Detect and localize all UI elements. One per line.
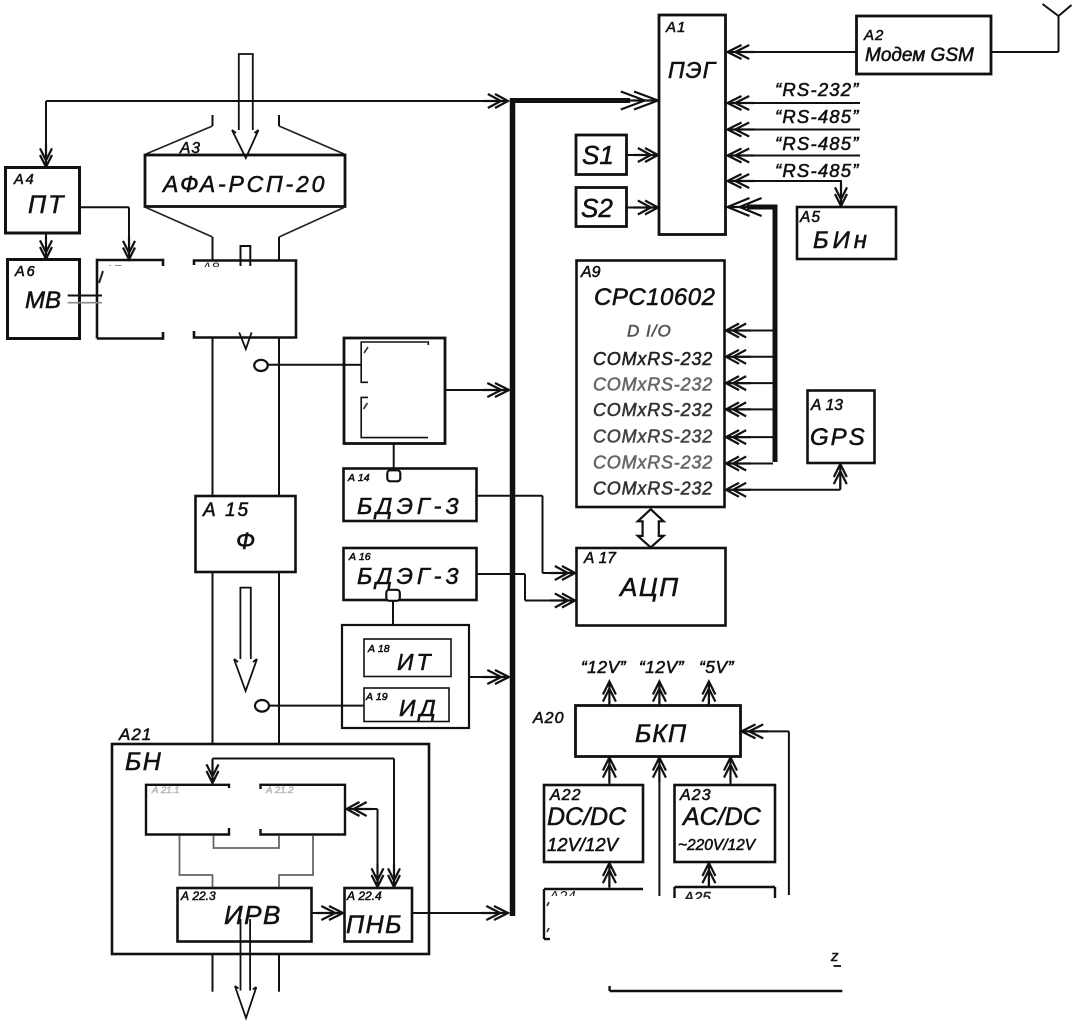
svg-text:БДЭГ-3: БДЭГ-3 <box>357 493 463 519</box>
svg-text:Ф: Ф <box>236 528 255 555</box>
svg-text:А4: А4 <box>13 172 36 188</box>
svg-text:“RS-485”: “RS-485” <box>775 133 860 154</box>
svg-text:БН: БН <box>125 748 162 776</box>
svg-text:ПНБ: ПНБ <box>346 911 403 939</box>
svg-text:БДЭГ-3: БДЭГ-3 <box>357 563 463 589</box>
svg-text:“12V”: “12V” <box>639 657 685 677</box>
svg-text:А9: А9 <box>580 264 601 281</box>
svg-text:АФА-РСП-20: АФА-РСП-20 <box>161 171 327 197</box>
svg-text:“RS-485”: “RS-485” <box>775 106 860 127</box>
svg-text:А23: А23 <box>679 787 711 804</box>
svg-text:ПТ: ПТ <box>28 191 65 219</box>
svg-text:А22: А22 <box>549 787 581 804</box>
svg-text:МВ: МВ <box>25 287 61 314</box>
svg-text:COMxRS-232: COMxRS-232 <box>593 400 713 420</box>
svg-text:12V/12V: 12V/12V <box>547 834 620 855</box>
svg-text:А5: А5 <box>799 209 821 226</box>
svg-text:А 18: А 18 <box>367 643 390 655</box>
svg-text:А6: А6 <box>14 264 37 280</box>
svg-text:А 21.1: А 21.1 <box>151 785 179 796</box>
svg-text:COMxRS-232: COMxRS-232 <box>593 479 713 499</box>
svg-text:z: z <box>830 948 839 965</box>
svg-text:“12V”: “12V” <box>581 657 627 677</box>
svg-text:А 22.3: А 22.3 <box>180 889 216 903</box>
svg-text:А1: А1 <box>665 19 686 36</box>
svg-text:А 15: А 15 <box>202 500 250 521</box>
svg-text:А3: А3 <box>179 140 201 157</box>
svg-text:ИТ: ИТ <box>397 649 434 675</box>
svg-text:СРС10602: СРС10602 <box>594 284 715 311</box>
svg-text:А 13: А 13 <box>810 397 843 414</box>
svg-text:ИРВ: ИРВ <box>224 900 282 930</box>
svg-text:БКП: БКП <box>635 720 687 748</box>
svg-text:“5V”: “5V” <box>699 657 735 677</box>
svg-text:S2: S2 <box>581 193 613 223</box>
svg-text:COMxRS-232: COMxRS-232 <box>593 453 713 473</box>
svg-text:А 14: А 14 <box>347 472 370 484</box>
svg-text:Модем GSM: Модем GSM <box>865 45 974 66</box>
svg-text:COMxRS-232: COMxRS-232 <box>593 427 713 447</box>
svg-text:А2: А2 <box>863 27 884 44</box>
svg-text:DC/DC: DC/DC <box>547 803 627 831</box>
svg-text:~220V/12V: ~220V/12V <box>678 837 757 854</box>
svg-text:“RS-232”: “RS-232” <box>775 79 860 100</box>
svg-text:А 21.2: А 21.2 <box>265 785 294 796</box>
svg-text:А 17: А 17 <box>583 550 617 567</box>
svg-text:AC/DC: AC/DC <box>681 803 762 831</box>
svg-text:S1: S1 <box>582 140 614 170</box>
svg-text:ПЭГ: ПЭГ <box>668 57 717 83</box>
svg-text:GPS: GPS <box>810 424 867 451</box>
svg-text:А20: А20 <box>532 710 564 727</box>
svg-text:COMxRS-232: COMxRS-232 <box>593 349 713 369</box>
svg-text:ИД: ИД <box>399 695 440 721</box>
svg-text:А 16: А 16 <box>348 551 371 563</box>
svg-text:“RS-485”: “RS-485” <box>775 160 860 181</box>
svg-text:А 19: А 19 <box>365 691 388 703</box>
svg-text:COMxRS-232: COMxRS-232 <box>593 375 713 395</box>
svg-text:АЦП: АЦП <box>618 572 680 602</box>
svg-text:А21: А21 <box>118 725 152 744</box>
svg-text:D I/O: D I/O <box>627 322 672 341</box>
svg-text:БИн: БИн <box>813 227 871 254</box>
svg-text:А 22.4: А 22.4 <box>346 889 382 903</box>
